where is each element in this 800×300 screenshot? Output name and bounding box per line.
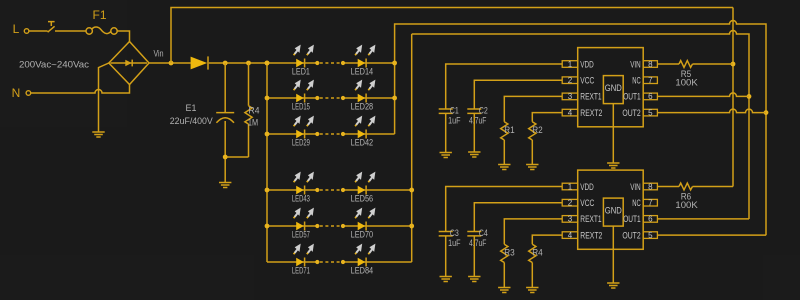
svg-text:4: 4	[568, 231, 573, 240]
wire cathode rail group B (LED43-84) to OUT1 bus	[412, 31, 749, 263]
wire VIN bus (x=733)	[732, 8, 734, 187]
svg-text:VCC: VCC	[580, 76, 594, 87]
switch (interrupter on L line)	[48, 22, 55, 33]
svg-text:2: 2	[568, 76, 573, 85]
pin box 6 (OUT1) of U2	[643, 216, 657, 223]
capacitor C3	[439, 232, 453, 277]
led LED42	[355, 116, 375, 139]
bridge internal diode	[111, 62, 148, 64]
IC U2 body	[578, 170, 644, 249]
node rail B row5	[409, 224, 414, 229]
diode D1	[191, 56, 208, 69]
svg-text:6: 6	[648, 92, 653, 101]
svg-text:100K: 100K	[675, 78, 697, 88]
svg-text:R2: R2	[532, 125, 543, 135]
wire U1 OUT1 to bus (hops VIN bus)	[657, 93, 749, 97]
svg-text:4.7uF: 4.7uF	[469, 238, 487, 248]
svg-text:1: 1	[568, 60, 573, 69]
svg-text:C2: C2	[479, 106, 488, 116]
svg-text:8: 8	[648, 182, 653, 191]
svg-text:3: 3	[568, 215, 573, 224]
svg-text:REXT1: REXT1	[580, 92, 601, 103]
wire E1/R4 bottom to ground	[225, 157, 248, 183]
svg-text:C1: C1	[450, 106, 459, 116]
wire R2/REXT2 (U1 pin4)	[532, 113, 562, 122]
svg-text:1uF: 1uF	[448, 116, 461, 126]
node dash right row 2	[341, 96, 345, 100]
wire LED row 3	[267, 133, 395, 135]
wire L to switch	[29, 30, 48, 32]
pin box 5 (OUT2) of U1	[643, 109, 657, 116]
pin box 1 (VDD) of U2	[562, 183, 578, 190]
pin box 6 (OUT1) of U1	[643, 93, 657, 100]
ground (R2)	[526, 165, 538, 170]
wire LED row 5	[267, 225, 412, 227]
svg-text:NC: NC	[632, 198, 641, 209]
svg-text:VCC: VCC	[580, 198, 594, 209]
fuse F1	[86, 27, 117, 34]
wire dashed (omitted LEDs row 5)	[320, 225, 341, 227]
node OUT1 bus top IC	[747, 94, 752, 99]
node Vin junction	[169, 61, 174, 66]
node dash right row 5	[341, 224, 345, 228]
led LED43	[294, 172, 314, 195]
svg-text:N: N	[12, 86, 21, 100]
svg-text:LED28: LED28	[351, 102, 374, 112]
capacitor C4	[467, 232, 481, 277]
wire dashed (omitted LEDs row 1)	[320, 62, 341, 64]
svg-text:R3: R3	[504, 247, 515, 257]
resistor R4 (1M)	[245, 63, 252, 157]
pin box 3 (REXT1) of U1	[562, 93, 578, 100]
IC U2 GND block	[603, 198, 623, 226]
node anode rail row 3	[265, 132, 270, 137]
node anode rail row 1	[265, 61, 270, 66]
ground (C3)	[440, 277, 452, 282]
node dash right row 3	[341, 132, 345, 136]
led LED29	[294, 116, 314, 139]
svg-text:L: L	[13, 22, 20, 36]
svg-text:200Vac~240Vac: 200Vac~240Vac	[19, 59, 90, 69]
ground (R4)	[526, 288, 538, 293]
node dash right row 1	[341, 61, 345, 65]
wire Vin node up to top rail	[171, 8, 733, 64]
node rail B row4	[409, 188, 414, 193]
node E1 top	[223, 61, 228, 66]
pin box 4 (REXT2) of U2	[562, 232, 578, 239]
ground (R1)	[498, 165, 510, 170]
led LED14	[355, 45, 375, 68]
wire U2 VIN to R6	[657, 186, 679, 188]
svg-text:LED84: LED84	[351, 266, 374, 276]
ground (R3)	[498, 288, 510, 293]
svg-text:LED57: LED57	[292, 230, 310, 240]
wire dashed (omitted LEDs row 3)	[320, 133, 341, 135]
capacitor C2	[467, 109, 481, 152]
led LED57	[294, 208, 314, 231]
wire C3/VDD (U2 pin1)	[446, 187, 563, 232]
wire R3/REXT1 (U2 pin3)	[504, 219, 562, 244]
node anode rail row 2	[265, 96, 270, 101]
svg-text:OUT1: OUT1	[623, 92, 641, 103]
svg-text:1uF: 1uF	[448, 238, 461, 248]
svg-text:GND: GND	[605, 206, 622, 217]
svg-text:1: 1	[568, 182, 573, 191]
wire C2/VCC (U1 pin2)	[474, 80, 562, 109]
svg-text:3: 3	[568, 92, 573, 101]
wire IC U2 GND to ground	[612, 226, 614, 283]
wire dashed (omitted LEDs row 2)	[320, 97, 341, 99]
svg-text:4.7uF: 4.7uF	[469, 116, 487, 126]
led LED71	[294, 244, 314, 267]
node rail A row1	[392, 61, 397, 66]
resistor R6	[679, 183, 733, 190]
resistor R5	[679, 61, 733, 68]
led LED28	[355, 80, 375, 103]
svg-text:VIN: VIN	[630, 182, 641, 193]
ground (C2)	[468, 152, 480, 157]
IC U1 GND block	[603, 76, 623, 104]
svg-text:LED29: LED29	[292, 138, 310, 148]
svg-text:LED1: LED1	[292, 67, 310, 77]
node OUT2 bus top IC	[764, 110, 769, 115]
node anode rail row 5	[265, 224, 270, 229]
pin box 3 (REXT1) of U2	[562, 216, 578, 223]
svg-text:100K: 100K	[675, 200, 697, 210]
svg-text:LED70: LED70	[351, 230, 374, 240]
pin box 2 (VCC) of U2	[562, 199, 578, 206]
ground (C1)	[440, 153, 452, 158]
wire LED row 6	[267, 261, 412, 263]
node dash left row 4	[315, 188, 319, 192]
resistor R1	[501, 122, 508, 165]
node dash left row 5	[315, 224, 319, 228]
node anode rail row 4	[265, 188, 270, 193]
ground (IC U1)	[607, 163, 619, 168]
pin box 4 (REXT2) of U1	[562, 109, 578, 116]
node dash left row 1	[315, 61, 319, 65]
wire dashed (omitted LEDs row 4)	[320, 189, 341, 191]
capacitor C1	[439, 109, 453, 153]
wire fuse to bridge top vertex	[117, 31, 129, 42]
led LED15	[294, 80, 314, 103]
node R4 top	[246, 61, 251, 66]
svg-text:R4: R4	[532, 247, 543, 257]
capacitor E1	[216, 63, 234, 157]
svg-text:2: 2	[568, 199, 573, 208]
node dash right row 4	[341, 188, 345, 192]
wire C4/VCC (U2 pin2)	[474, 203, 562, 232]
svg-text:8: 8	[648, 60, 653, 69]
svg-text:GND: GND	[605, 83, 622, 94]
svg-text:5: 5	[648, 231, 653, 240]
svg-text:NC: NC	[632, 76, 641, 87]
svg-text:LED43: LED43	[292, 194, 310, 204]
svg-text:VIN: VIN	[630, 59, 641, 70]
led LED70	[355, 208, 375, 231]
svg-text:C4: C4	[479, 228, 488, 238]
wire R1/REXT1 (U1 pin3)	[504, 96, 562, 121]
wire U2 OUT2 to bus	[657, 234, 766, 236]
wire IC U1 GND to ground	[612, 104, 614, 163]
wire R4/REXT2 (U2 pin4)	[532, 235, 562, 244]
pin box 7 (NC) of U1	[643, 77, 657, 84]
node E1 bottom	[223, 155, 228, 160]
node dash right row 6	[341, 260, 345, 264]
resistor R2	[529, 122, 536, 165]
wire dashed (omitted LEDs row 6)	[320, 261, 341, 263]
wire U1 VIN to R5	[657, 63, 679, 65]
svg-text:Vin: Vin	[154, 49, 164, 59]
pin box 5 (OUT2) of U2	[643, 232, 657, 239]
svg-text:LED56: LED56	[351, 194, 374, 204]
pin box 7 (NC) of U2	[643, 199, 657, 206]
pin box 1 (VDD) of U1	[562, 61, 578, 68]
svg-text:OUT1: OUT1	[623, 214, 641, 225]
ground (IC U2)	[607, 283, 619, 288]
wire cathode rail group A (LED1-42) to OUT2 bus	[395, 21, 766, 236]
ground (C4)	[468, 277, 480, 282]
svg-text:7: 7	[648, 199, 653, 208]
svg-text:OUT2: OUT2	[622, 108, 640, 119]
svg-text:5: 5	[648, 108, 653, 117]
svg-text:22uF/400V: 22uF/400V	[170, 116, 213, 126]
svg-text:OUT2: OUT2	[622, 230, 640, 241]
wire C1/VDD (U1 pin1)	[446, 64, 563, 109]
pin box 8 (VIN) of U1	[643, 61, 657, 68]
svg-text:VDD: VDD	[580, 182, 594, 193]
svg-text:F1: F1	[92, 8, 106, 22]
svg-text:LED14: LED14	[351, 67, 374, 77]
svg-text:R4: R4	[249, 106, 260, 116]
IC U1 body	[578, 48, 644, 127]
resistor R3	[501, 244, 508, 287]
svg-text:7: 7	[648, 76, 653, 85]
wire LED anode rail (left)	[266, 63, 268, 262]
bridge rectifier (diamond)	[109, 42, 149, 85]
node dash left row 3	[315, 132, 319, 136]
svg-text:REXT2: REXT2	[580, 108, 602, 119]
node dash left row 6	[315, 260, 319, 264]
svg-text:LED15: LED15	[292, 102, 310, 112]
node rail A row2	[392, 96, 397, 101]
svg-text:LED42: LED42	[351, 138, 374, 148]
svg-text:6: 6	[648, 215, 653, 224]
node R5 to VIN bus	[731, 62, 736, 67]
wire N to bridge bottom (hops over ground wire)	[31, 85, 130, 94]
wire LED row 2	[267, 97, 395, 99]
wire bridge output to diode	[149, 62, 191, 64]
wire U1 OUT2 to bus (hops VIN+OUT1 buses)	[657, 109, 766, 113]
ground (bridge negative)	[92, 132, 104, 137]
pin box 2 (VCC) of U1	[562, 77, 578, 84]
wire LED row 1	[267, 62, 395, 64]
led LED84	[355, 244, 375, 267]
terminal circle L	[24, 29, 29, 34]
led LED56	[355, 172, 375, 195]
wire LED row 4	[267, 189, 412, 191]
led LED1	[294, 45, 314, 68]
pin box 8 (VIN) of U2	[643, 183, 657, 190]
svg-text:E1: E1	[186, 103, 197, 113]
svg-text:LED71: LED71	[292, 266, 310, 276]
node dash left row 2	[315, 96, 319, 100]
svg-text:R1: R1	[504, 125, 515, 135]
resistor R4 (REXT2 of U2)	[529, 244, 536, 287]
wire switch to fuse	[55, 30, 86, 32]
svg-text:VDD: VDD	[580, 59, 594, 70]
node LED rail top	[265, 61, 270, 66]
ground (bulk cap return)	[219, 183, 231, 188]
svg-text:C3: C3	[450, 228, 459, 238]
wire U2 OUT1 to bus	[657, 218, 749, 220]
svg-text:1M: 1M	[248, 117, 258, 127]
svg-text:REXT1: REXT1	[580, 214, 601, 225]
terminal circle N	[26, 91, 31, 96]
svg-text:REXT2: REXT2	[580, 230, 602, 241]
wire bridge left vertex to ground	[99, 63, 109, 132]
svg-text:4: 4	[568, 108, 573, 117]
wire diode to LED block	[209, 62, 267, 64]
